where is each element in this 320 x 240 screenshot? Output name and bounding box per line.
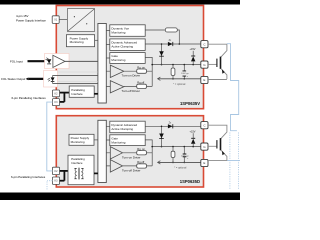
Paralleling Interface block (bottom): [68, 155, 94, 185]
turn-on driver amp (bottom): [110, 147, 122, 159]
resistor Rg,off (bottom): [123, 160, 153, 168]
wire gate monitoring to gate node (bottom): [145, 140, 152, 166]
Power Supply Monitoring block (bottom): [69, 134, 94, 145]
central logic bus bar (bottom): [98, 120, 106, 182]
diode Zx (bottom): [168, 123, 173, 129]
fiber optic transmitter cutout: [44, 71, 58, 88]
gate bus wire (top): [152, 64, 201, 66]
IGBT Q2 gate wire: [208, 145, 216, 147]
IGBT Q1 emitter wire: [208, 79, 227, 81]
+15V clamp diode (bottom): [190, 131, 196, 147]
thick wires K pins to paralleling interface (top): [60, 93, 70, 102]
capacitor CGE (top): [181, 65, 189, 80]
svg-text:Monitoring: Monitoring: [70, 40, 84, 44]
bus stubs to blocks (top): [106, 31, 110, 87]
svg-text:6-pin Paralleling Interfaces: 6-pin Paralleling Interfaces: [11, 175, 46, 179]
pin G (top): [201, 61, 208, 68]
continuation bus (blue dotted): [229, 133, 231, 190]
wire X1 to DC/DC: [59, 19, 67, 21]
svg-text:FOL Input: FOL Input: [10, 59, 23, 63]
gate bus wire (bottom): [152, 146, 201, 148]
faint wires to bus: [57, 72, 98, 82]
svg-text:Monitoring: Monitoring: [111, 58, 125, 62]
svg-text:Rg,off: Rg,off: [137, 160, 144, 164]
paralleling transformer: [74, 168, 84, 180]
svg-text:Rg, on: Rg, on: [137, 65, 145, 69]
svg-text:Monitoring: Monitoring: [111, 30, 125, 34]
svg-text:Turn-on Driver: Turn-on Driver: [122, 156, 141, 160]
svg-text:Active Clamping: Active Clamping: [111, 45, 133, 49]
Dynamic Advanced Active Clamping block (bottom): [110, 121, 145, 133]
Paralleling Interface block (top): [69, 86, 94, 97]
central logic bus bar (top): [98, 24, 106, 104]
emitter bus (blue, bottom): [227, 160, 240, 162]
svg-text:* = optional: * = optional: [174, 167, 186, 170]
bus stubs to blocks (bottom): [106, 126, 110, 166]
thick wire paralleling block to bus (bottom): [94, 172, 98, 174]
Gate Monitoring block (top): [110, 53, 145, 64]
driver module 1SP0635V (top) body: [56, 6, 203, 109]
IGBT Q1: [217, 57, 227, 79]
svg-text:E: E: [203, 78, 205, 82]
svg-text:*: *: [187, 75, 188, 79]
pin G (bottom): [201, 143, 208, 150]
svg-text:Interface: Interface: [71, 92, 83, 96]
pin K2 (top module): [52, 90, 59, 97]
status wires to bus: [53, 75, 98, 83]
svg-text:Monitoring: Monitoring: [71, 140, 85, 144]
wire receiver to bus: [65, 60, 98, 62]
pin C (bottom): [201, 122, 208, 129]
resistor Rg,on (top): [124, 65, 152, 73]
clamping wire to collector (top): [145, 43, 201, 45]
fiber optic receiver cutout: [45, 54, 70, 69]
+15V clamp diode (top): [190, 48, 196, 65]
gate resistor vertical (bottom): [171, 147, 175, 164]
wire PSM to bus (bottom): [94, 139, 98, 141]
IGBT Q2 emitter wire: [208, 160, 227, 162]
pin K2 (bottom module): [52, 167, 59, 174]
driver module 1SP0635D (bottom) body: [56, 116, 203, 187]
pin E (bottom): [201, 159, 208, 166]
clamping feedback diode (bottom): [159, 126, 164, 148]
turn-off driver amp (bottom): [110, 160, 122, 172]
resistor Rg,off (top): [124, 81, 152, 89]
IGBT Q1 collector wire: [208, 44, 227, 57]
pin C (top): [201, 41, 208, 48]
svg-text:4-pin 15V: 4-pin 15V: [16, 14, 28, 18]
clamping feedback diode (top): [159, 43, 164, 65]
DC/DC converter: [67, 9, 94, 32]
svg-text:+15V: +15V: [190, 48, 196, 51]
thick wires K pins to paralleling interface (bottom): [60, 171, 68, 181]
svg-text:Interface: Interface: [71, 161, 83, 165]
turn-on driver amp (top): [110, 65, 124, 77]
svg-text:Power Supply Interface: Power Supply Interface: [16, 19, 46, 23]
gate resistor vertical (top): [171, 65, 175, 80]
svg-text:E: E: [203, 161, 205, 165]
Dynamic Vce Monitoring block: [110, 25, 145, 37]
IGBT Q2 collector wire: [208, 125, 227, 138]
svg-text:6-pin Paralleling Interfaces: 6-pin Paralleling Interfaces: [12, 96, 47, 100]
svg-text:1SP0635D: 1SP0635D: [180, 179, 200, 184]
diode Zx (top): [168, 40, 173, 46]
svg-text:Rg,off: Rg,off: [137, 81, 144, 85]
turn-off driver amp (top): [110, 81, 124, 93]
wire PSM to bus: [95, 39, 98, 41]
paralleling continuation (blue dotted): [47, 181, 52, 191]
FOL input arrow: [28, 60, 50, 63]
clamping wire to collector (bottom): [145, 125, 201, 127]
pin K3 (top module): [52, 99, 59, 106]
4-pin 15V Power Supply Interface label: [16, 14, 46, 23]
emitter bus wire (top): [158, 77, 201, 80]
paralleling bus wire (blue): [47, 102, 53, 171]
svg-text:Turn-on Driver: Turn-on Driver: [122, 73, 141, 77]
resistor Rg,on (bottom): [123, 147, 153, 155]
pin E (top): [201, 76, 208, 83]
IGBT Q2: [217, 138, 227, 160]
svg-text:Rg, on: Rg, on: [137, 147, 145, 151]
wire gate monitoring to gate node (top): [145, 57, 152, 86]
capacitor CGE (bottom): [181, 147, 189, 164]
Gate Monitoring block (bottom): [110, 135, 145, 146]
svg-text:* = optional: * = optional: [173, 83, 185, 86]
resistor Rx sense (top): [145, 28, 179, 44]
phase bus wire (blue): [227, 44, 239, 131]
svg-text:100Cge: 100Cge: [181, 73, 189, 75]
svg-text:Active Clamping: Active Clamping: [111, 127, 133, 131]
svg-text:Turn-off Driver: Turn-off Driver: [122, 89, 141, 93]
Power Supply Monitoring block (top): [66, 35, 94, 47]
svg-text:FOL Status Output: FOL Status Output: [1, 77, 25, 81]
IGBT Q1 gate wire: [208, 63, 216, 65]
junction resistor Rx to clamp wire: [179, 43, 181, 45]
svg-text:1SP0635V: 1SP0635V: [180, 101, 200, 106]
pin K3 (bottom module): [52, 177, 59, 184]
pin X1 (power supply): [52, 16, 59, 24]
svg-text:Monitoring: Monitoring: [111, 140, 125, 144]
wire paralleling to bus (top): [94, 93, 98, 95]
svg-text:+15V: +15V: [190, 131, 196, 134]
FOL status output arrow: [26, 78, 46, 81]
svg-text:Turn-off Driver: Turn-off Driver: [122, 169, 141, 173]
Dynamic Advanced Active Clamping block: [110, 39, 145, 51]
emitter bus wire (bottom): [158, 161, 201, 164]
svg-text:*: *: [187, 157, 188, 161]
